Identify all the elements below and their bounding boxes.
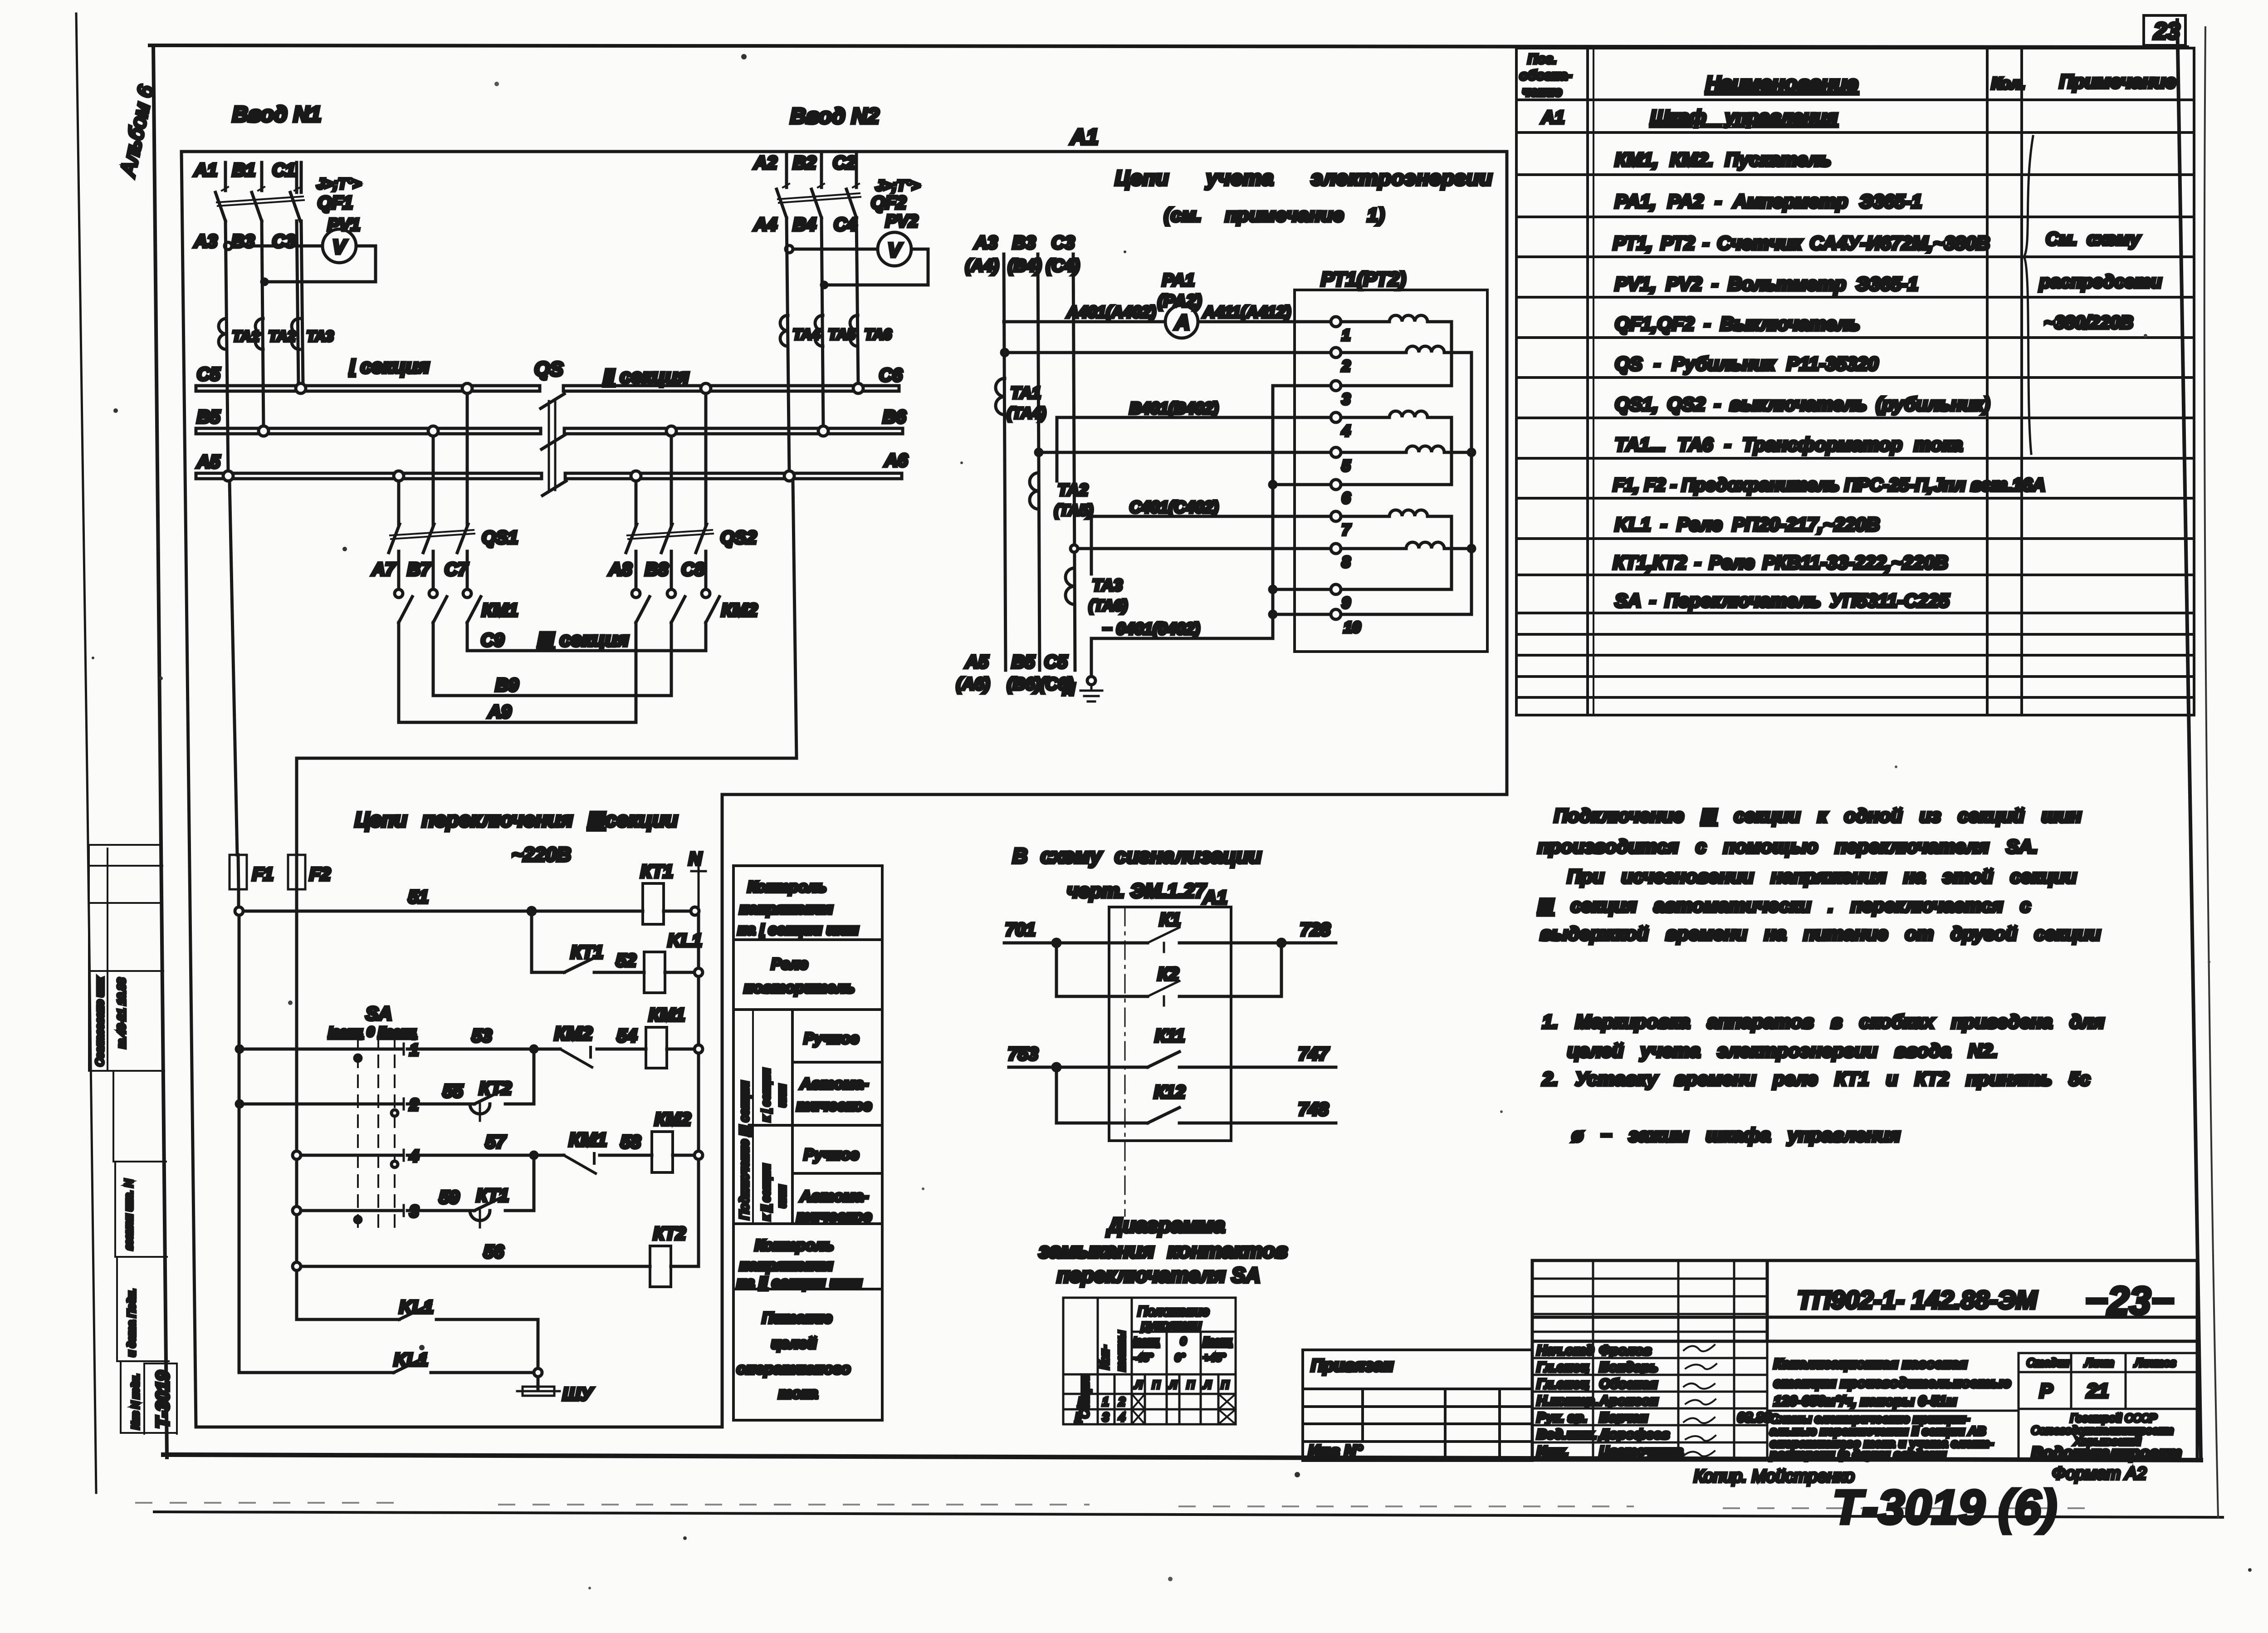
svg-text:~380/220В: ~380/220В — [2044, 313, 2133, 333]
wire CT return riser — [1271, 386, 1275, 638]
svg-text:Реле: Реле — [771, 956, 808, 973]
svg-text:Т-3019: Т-3019 — [153, 1371, 173, 1428]
sheet frame bottom border — [163, 1455, 2201, 1460]
svg-text:С8: С8 — [681, 559, 705, 579]
contact K12 — [1148, 1108, 1179, 1123]
signal box A1 — [1109, 907, 1231, 1141]
svg-text:(см. примечание 1): (см. примечание 1) — [1164, 204, 1385, 226]
svg-text:С4: С4 — [834, 215, 857, 235]
svg-text:3: 3 — [1102, 1410, 1109, 1424]
svg-text:ТА3: ТА3 — [307, 328, 333, 344]
svg-text:целей: целей — [771, 1335, 817, 1352]
svg-text:Н.контр.: Н.контр. — [1537, 1393, 1598, 1408]
svg-text:В8: В8 — [645, 559, 669, 579]
sheet frame left border — [153, 45, 167, 1457]
svg-text:Привязан: Привязан — [1311, 1356, 1393, 1375]
svg-text:распредсети: распредсети — [2039, 272, 2162, 292]
svg-text:А1: А1 — [1202, 887, 1227, 908]
breaker QF1 — [215, 176, 361, 221]
SEC:NOTES — [1538, 805, 2104, 1146]
wire QS2 pole A drop — [635, 481, 638, 525]
svg-text:PV2: PV2 — [885, 212, 918, 231]
svg-text:КМ1: КМ1 — [482, 600, 518, 620]
wire 10 neutral to meter terminal 10 — [1273, 613, 1331, 616]
svg-text:F2: F2 — [309, 864, 331, 884]
wire KM1 pole C to C9 — [466, 623, 469, 651]
svg-text:701: 701 — [1005, 920, 1036, 940]
svg-text:III секция: III секция — [538, 628, 629, 651]
svg-text:А3: А3 — [974, 233, 997, 253]
svg-text:взамен инв. N: взамен инв. N — [123, 1179, 135, 1250]
svg-text:П: П — [1221, 1379, 1229, 1391]
svg-text:N: N — [689, 849, 702, 869]
svg-text:ТА1: ТА1 — [1011, 383, 1041, 402]
svg-text:Лист: Лист — [2084, 1357, 2114, 1369]
center line dash-dot — [1124, 907, 1126, 1216]
svg-text:чение: чение — [1522, 84, 1562, 99]
svg-text:4: 4 — [1341, 422, 1350, 440]
svg-text:QS1, QS2 - выключатель (рубиль: QS1, QS2 - выключатель (рубильник) — [1615, 393, 1990, 415]
wire QS2 to KM2 — [636, 551, 706, 588]
svg-text:KL1: KL1 — [399, 1297, 434, 1317]
relay coil KM2 — [652, 1109, 703, 1172]
svg-text:Нач.отд: Нач.отд — [1537, 1343, 1594, 1358]
svg-text:54: 54 — [617, 1026, 637, 1046]
breaker QF2 — [777, 177, 920, 218]
svg-text:Формат А2: Формат А2 — [2052, 1464, 2146, 1483]
svg-text:3: 3 — [410, 1202, 419, 1221]
svg-text:KL1 - Реле РП20-217,~220В: KL1 - Реле РП20-217,~220В — [1615, 514, 1880, 535]
meter current coil phase B — [1341, 411, 1452, 485]
svg-text:Вед.инж.: Вед.инж. — [1537, 1427, 1597, 1442]
svg-text:черт. ЭМ.1.27: черт. ЭМ.1.27 — [1067, 880, 1207, 902]
svg-text:КТ1: КТ1 — [571, 942, 603, 962]
svg-text:+45°: +45° — [1203, 1352, 1226, 1364]
svg-text:КТ2: КТ2 — [479, 1079, 512, 1098]
svg-text:В6: В6 — [883, 407, 906, 427]
svg-text:КМ2: КМ2 — [721, 600, 758, 620]
svg-text:А401(А402): А401(А402) — [1066, 303, 1156, 321]
SA contact diagram table — [1063, 1298, 1236, 1424]
svg-text:(ТА4): (ТА4) — [1007, 405, 1046, 422]
svg-text:Кол.: Кол. — [1991, 74, 2025, 93]
svg-text:II секция: II секция — [603, 365, 689, 387]
svg-text:F1: F1 — [252, 864, 274, 884]
current transformer TA5 — [815, 315, 823, 346]
svg-text:А9: А9 — [488, 702, 512, 722]
svg-text:QS2: QS2 — [720, 528, 757, 548]
svg-text:Питание: Питание — [762, 1309, 832, 1327]
svg-text:Гл.спец: Гл.спец — [1537, 1360, 1589, 1375]
svg-text:Бондарь: Бондарь — [1599, 1360, 1658, 1375]
svg-text:728: 728 — [1300, 920, 1330, 940]
meter voltage coil phase C — [1341, 542, 1471, 549]
svg-text:QF1: QF1 — [318, 193, 353, 213]
contact KT1 time-delay in rung 59 — [470, 1186, 509, 1227]
wire rung 53 — [243, 1048, 646, 1051]
wire phase B input 2 — [820, 152, 823, 187]
svg-text:6: 6 — [1342, 490, 1351, 507]
wire phase A metering riser — [1004, 254, 1006, 670]
svg-text:QF1,QF2 - Выключатель: QF1,QF2 - Выключатель — [1615, 313, 1860, 335]
wire KM2 pole A to A9 — [635, 623, 638, 722]
wire 753 to contact K11 — [1009, 1066, 1336, 1069]
svg-text:KL1: KL1 — [668, 931, 702, 951]
svg-text:QS - Рубильник Р11-35320: QS - Рубильник Р11-35320 — [1615, 353, 1878, 375]
wire phase C col input1 down to bus (double) — [297, 221, 303, 386]
wire phase C input 1 (double) — [297, 162, 301, 192]
meter current coil phase A — [1341, 315, 1452, 386]
wire 7 C401 to meter terminal 7 — [1091, 516, 1331, 574]
wire rung 57 — [293, 1151, 301, 1159]
svg-text:1: 1 — [410, 1040, 419, 1059]
contactor KM2 main contacts — [632, 589, 758, 623]
svg-text:Цепи учета электроэнергии: Цепи учета электроэнергии — [1115, 166, 1493, 190]
svg-text:II: II — [1075, 1410, 1081, 1424]
svg-text:на I секции шин: на I секции шин — [738, 921, 859, 938]
signatures scribbles — [1684, 1345, 1716, 1456]
wire rung 56 — [293, 1262, 301, 1270]
svg-text:Положение: Положение — [1138, 1304, 1209, 1319]
svg-text:Согласовано инж: Согласовано инж — [94, 976, 106, 1066]
svg-text:ШУ: ШУ — [562, 1384, 594, 1404]
svg-text:10: 10 — [1344, 619, 1361, 636]
svg-text:РТ1(РТ2): РТ1(РТ2) — [1321, 268, 1406, 290]
svg-text:~220В: ~220В — [512, 843, 571, 866]
svg-text:Обозная: Обозная — [1599, 1377, 1657, 1392]
svg-text:2: 2 — [1118, 1395, 1125, 1408]
svg-text:Наименование: Наименование — [1706, 72, 1858, 95]
paper edge bottom line — [154, 1512, 2223, 1517]
contact KL1 NO lower — [394, 1357, 425, 1373]
svg-text:Инв N подл.: Инв N подл. — [130, 1374, 141, 1429]
svg-text:Автома-: Автома- — [800, 1075, 869, 1093]
wire phase B input 1 — [260, 162, 264, 191]
svg-text:Контроль: Контроль — [748, 878, 826, 896]
svg-text:К11: К11 — [1155, 1026, 1185, 1046]
svg-text:В2: В2 — [793, 153, 816, 173]
svg-text:тическое: тическое — [797, 1097, 872, 1114]
contact KT2 time-delay in rung 55 — [470, 1079, 512, 1121]
bus C5 section I — [196, 386, 540, 391]
svg-text:2: 2 — [409, 1095, 419, 1114]
current transformer TA4 — [780, 315, 788, 346]
relay coil KM1 — [646, 1005, 703, 1068]
relay coil KT2 — [650, 1224, 699, 1287]
wire 0401 neutral return — [1093, 637, 1273, 640]
contact K2 — [1148, 981, 1179, 1005]
svg-text:J>;T°>: J>;T°> — [875, 177, 920, 194]
contact KM2 NC in rung 53 — [560, 1047, 592, 1067]
svg-text:обозна-: обозна- — [1520, 68, 1572, 83]
wire phase B col input1 down to bus — [262, 221, 264, 428]
svg-text:ТП902-1- 142.88-ЭМ: ТП902-1- 142.88-ЭМ — [1797, 1285, 2038, 1314]
current transformer TA1(TA4) — [996, 378, 1005, 415]
wire KM2 pole C to C9 — [704, 623, 708, 651]
wire rung 55 rise to rung 53 — [505, 1049, 534, 1104]
svg-text:7: 7 — [1342, 521, 1351, 539]
function annotation table — [733, 866, 882, 1420]
wire QS2 pole C drop — [704, 393, 708, 525]
svg-text:23: 23 — [2153, 18, 2180, 44]
svg-text:(А6): (А6) — [956, 675, 990, 694]
svg-text:выдержкой времени на пита: выдержкой времени на питание от другой с… — [1540, 923, 2101, 944]
svg-text:ТА6: ТА6 — [865, 326, 891, 343]
wire 9 to meter terminal 9 — [1273, 588, 1331, 591]
svg-text:С5: С5 — [1044, 652, 1068, 672]
wire QS2 pole B drop — [670, 436, 673, 525]
X marks closed contacts — [1132, 1394, 1236, 1424]
note brace — [2024, 136, 2033, 454]
contact K11 — [1148, 1052, 1179, 1067]
svg-text:Цветочкина: Цветочкина — [1599, 1444, 1683, 1459]
svg-text:Ручное: Ручное — [804, 1146, 859, 1163]
svg-text:В3: В3 — [231, 231, 254, 251]
wire 5 to meter terminal 5 — [1039, 451, 1331, 454]
svg-text:J>;T°>: J>;T°> — [317, 176, 361, 192]
svg-text:Схемы электрические принцип-: Схемы электрические принцип- — [1770, 1412, 1970, 1426]
meter PT1(PT2) box — [1295, 290, 1487, 652]
svg-text:Контроль: Контроль — [755, 1237, 834, 1254]
wire rung 51 — [243, 910, 643, 913]
privyazan table — [1303, 1350, 1532, 1461]
svg-text:Копир. Мойстренко: Копир. Мойстренко — [1694, 1467, 1854, 1486]
svg-text:1: 1 — [1342, 327, 1350, 344]
svg-text:тока: тока — [778, 1385, 818, 1402]
svg-text:N: N — [1062, 680, 1075, 699]
svg-text:1: 1 — [1102, 1395, 1109, 1408]
wire phase B metering riser — [1038, 254, 1040, 670]
wire rung 59 rise to rung 57 — [505, 1155, 534, 1211]
svg-text:производится с помощью пер: производится с помощью переключателя SA. — [1538, 836, 2038, 857]
current transformer TA2(TA5) — [1030, 473, 1039, 509]
svg-text:QS: QS — [534, 358, 563, 380]
svg-text:КТ1,КТ2 - Реле РКВ11-33-222,~: КТ1,КТ2 - Реле РКВ11-33-222,~220В — [1613, 552, 1948, 573]
svg-text:С3: С3 — [1051, 233, 1075, 253]
svg-text:Диаграмма: Диаграмма — [1106, 1213, 1225, 1237]
svg-text:Ввод N1: Ввод N1 — [232, 103, 321, 127]
sheet number box 23 — [2144, 15, 2185, 45]
wire 2 to meter terminal 2 — [1005, 351, 1331, 354]
svg-text:A: A — [1174, 310, 1190, 334]
svg-text:9: 9 — [1342, 594, 1350, 612]
svg-text:− 0401(0402): − 0401(0402) — [1102, 619, 1200, 638]
wire KL1 contact rung lower — [239, 1371, 535, 1374]
svg-text:Ввод N2: Ввод N2 — [790, 104, 879, 128]
svg-text:А1: А1 — [1070, 125, 1098, 149]
wire KL1 contact rung upper — [297, 1319, 538, 1368]
svg-text:станция производительностью: станция производительностью — [1774, 1375, 2011, 1391]
svg-text:(В4): (В4) — [1008, 256, 1041, 275]
svg-text:(РА2): (РА2) — [1158, 292, 1202, 311]
svg-text:Листов: Листов — [2134, 1357, 2176, 1369]
wire neutral riser to ground — [1090, 638, 1093, 677]
svg-text:I секция: I секция — [349, 355, 430, 378]
wire phase C col input2 down to bus — [856, 218, 858, 386]
meter voltage coil common riser — [1341, 353, 1471, 614]
wire QS1 pole C drop — [466, 393, 469, 525]
svg-text:753: 753 — [1008, 1044, 1038, 1064]
wire phase A input 1 — [224, 162, 227, 191]
wire fuse F2 feed from bus A6 — [297, 481, 797, 855]
svg-text:Инж.: Инж. — [1537, 1444, 1569, 1459]
current transformer TA1 — [219, 319, 226, 349]
bus A6 section II — [565, 473, 902, 479]
contact KM1 NC in rung 57 — [564, 1153, 596, 1173]
svg-text:А1: А1 — [1541, 108, 1564, 128]
svg-text:КМ1: КМ1 — [569, 1129, 607, 1150]
wire C9 section III — [467, 649, 706, 652]
svg-text:PV1, PV2 - Вольтметр Э365-1: PV1, PV2 - Вольтметр Э365-1 — [1615, 273, 1918, 294]
svg-text:РА1, РА2 - Амперметр Э365-1: РА1, РА2 - Амперметр Э365-1 — [1615, 191, 1922, 212]
svg-text:В4: В4 — [793, 215, 816, 235]
paper edge right line — [2204, 27, 2218, 1517]
svg-text:53: 53 — [472, 1026, 492, 1046]
svg-text:I: I — [1078, 1395, 1081, 1408]
svg-text:КМ1: КМ1 — [649, 1005, 685, 1025]
svg-text:Iсекц 0 IIсекц: Iсекц 0 IIсекц — [328, 1025, 416, 1040]
svg-text:напряжения: напряжения — [739, 900, 833, 917]
switch QS1 — [389, 524, 518, 553]
svg-text:-45°: -45° — [1133, 1352, 1154, 1364]
svg-text:С1: С1 — [272, 160, 295, 180]
svg-text:QS1: QS1 — [482, 528, 518, 548]
svg-text:В5: В5 — [1012, 652, 1035, 672]
svg-text:21: 21 — [2086, 1380, 2109, 1402]
SEC:TABLE — [1516, 48, 2194, 715]
svg-text:А3: А3 — [194, 231, 217, 251]
svg-text:С3: С3 — [272, 231, 295, 251]
svg-text:747: 747 — [1298, 1044, 1329, 1064]
svg-text:Фролов: Фролов — [1599, 1343, 1652, 1358]
svg-text:51: 51 — [408, 887, 429, 907]
svg-text:См. схему: См. схему — [2046, 229, 2141, 249]
svg-text:С9: С9 — [481, 630, 504, 650]
bus C6 section II — [563, 386, 899, 391]
wire K2 branch — [1053, 939, 1060, 946]
svg-text:Стадия: Стадия — [2027, 1357, 2069, 1369]
svg-text:Iсекц: Iсекц — [1133, 1335, 1159, 1348]
wire 1 A401 to meter terminal 1 — [1004, 320, 1331, 324]
svg-text:на II секции шин: на II секции шин — [737, 1274, 862, 1291]
svg-text:напряжения: напряжения — [739, 1257, 833, 1274]
svg-text:3: 3 — [1342, 391, 1350, 408]
svg-text:В7: В7 — [407, 559, 431, 579]
svg-text:А7: А7 — [371, 559, 396, 579]
wire phase A col input1 down to bus — [225, 221, 228, 473]
svg-text:V: V — [888, 239, 903, 261]
svg-text:Инв N°: Инв N° — [1308, 1442, 1363, 1460]
svg-text:А5: А5 — [196, 452, 220, 472]
svg-text:В5: В5 — [197, 407, 220, 427]
current transformer TA6 — [850, 315, 858, 346]
svg-text:С7: С7 — [445, 559, 469, 579]
svg-text:SA - Переключатель УП5311-С22: SA - Переключатель УП5311-С225 — [1615, 590, 1950, 611]
svg-text:Р: Р — [2039, 1380, 2053, 1402]
wire phase A input 2 — [785, 152, 788, 187]
svg-text:F1, F2 - Предохранитель ПРС-25: F1, F2 - Предохранитель ПРС-25-П,Jпл вст… — [1613, 475, 2045, 495]
svg-text:КТ1: КТ1 — [640, 862, 673, 882]
wire KM1 pole A to A9 — [397, 623, 401, 722]
svg-text:Подключение III секции: Подключение III секции — [737, 1081, 751, 1220]
SEC:FRAME — [150, 20, 2201, 1460]
meter terminals 1-10 — [1331, 317, 1341, 619]
svg-text:1. Маркировка аппаратов в с: 1. Маркировка аппаратов в скобках привед… — [1542, 1011, 2104, 1032]
wire KM2 pole B to B9 — [670, 623, 673, 696]
svg-text:Цепи переключения IIIсекции: Цепи переключения IIIсекции — [355, 808, 678, 831]
svg-text:С5: С5 — [197, 364, 220, 384]
svg-text:альные переключения II секции: альные переключения II секции АВ — [1770, 1424, 1986, 1438]
svg-text:целей учета электроэнергии: целей учета электроэнергии ввода N2. — [1567, 1040, 1998, 1061]
svg-text:Канализационная насосная: Канализационная насосная — [1774, 1356, 1967, 1372]
wire fuse F1 feed from bus A5 — [230, 481, 237, 855]
fuse F1 — [230, 855, 274, 889]
wire QS1 pole A drop — [397, 481, 401, 525]
svg-text:QF2: QF2 — [871, 193, 906, 213]
svg-text:К1: К1 — [1159, 910, 1181, 930]
svg-text:РТ1, РТ2 - Счетчик СА4У-И672: РТ1, РТ2 - Счетчик СА4У-И672М,~380В — [1613, 232, 1990, 254]
svg-text:А5: А5 — [965, 652, 989, 672]
svg-text:и дата Подп.: и дата Подп. — [126, 1289, 138, 1357]
wire phase C metering riser — [1073, 254, 1075, 670]
svg-text:52: 52 — [616, 951, 636, 971]
svg-text:В схему сигнализации: В схему сигнализации — [1012, 844, 1261, 868]
svg-text:748: 748 — [1298, 1099, 1329, 1119]
current transformer TA3 — [292, 319, 299, 349]
svg-text:KL1: KL1 — [394, 1350, 428, 1370]
junction circles on buses — [223, 383, 863, 481]
svg-text:Кон-: Кон- — [1098, 1345, 1111, 1369]
svg-text:Гл.спец: Гл.спец — [1537, 1377, 1589, 1392]
svg-text:0°: 0° — [1175, 1352, 1185, 1364]
svg-text:ТА2: ТА2 — [1058, 481, 1088, 499]
meter voltage coil phase B — [1341, 446, 1471, 452]
terminal number labels — [1341, 327, 1361, 636]
svg-text:к I секции: к I секции — [759, 1069, 772, 1122]
svg-text:59: 59 — [439, 1187, 459, 1207]
svg-text:Л: Л — [1134, 1379, 1143, 1391]
wire A9 section III — [399, 721, 636, 724]
bus B5 section I — [196, 428, 541, 434]
wire left rail 2 from F2 — [295, 889, 298, 1319]
svg-text:В401(В402): В401(В402) — [1129, 399, 1218, 417]
wire right rail N — [697, 915, 700, 1266]
disconnector QS between sections — [534, 358, 566, 495]
fuse F2 — [288, 855, 331, 889]
left margin stamp cells — [89, 845, 177, 1434]
ground symbol — [1080, 685, 1102, 701]
svg-text:Ручное: Ручное — [804, 1030, 859, 1047]
svg-text:тическое: тическое — [797, 1208, 872, 1225]
svg-text:2. Уставку времени реле КТ: 2. Уставку времени реле КТ1 и КТ2 принят… — [1542, 1068, 2090, 1089]
svg-text:08.88: 08.88 — [1737, 1410, 1771, 1425]
ammeter PA1(PA2) — [1158, 271, 1202, 338]
svg-text:А8: А8 — [608, 559, 632, 579]
wire KM1 pole B to B9 — [432, 623, 435, 696]
svg-text:4: 4 — [409, 1147, 419, 1165]
svg-text:(В6): (В6) — [1007, 675, 1041, 694]
svg-text:В1: В1 — [232, 160, 255, 180]
project description — [1774, 1356, 2011, 1409]
wire phase A col input2 down to bus — [787, 218, 789, 473]
contact K1 — [1148, 927, 1179, 952]
svg-text:КМ1, КМ2. Пускатель: КМ1, КМ2. Пускатель — [1615, 149, 1831, 170]
sheet frame right border — [2177, 20, 2201, 1458]
svg-text:Дорофеев: Дорофеев — [1598, 1427, 1670, 1442]
svg-text:оперативного: оперативного — [737, 1360, 850, 1378]
wire QS1 to KM1 — [399, 551, 467, 588]
wire 701 to contact K1 — [1004, 942, 1336, 945]
